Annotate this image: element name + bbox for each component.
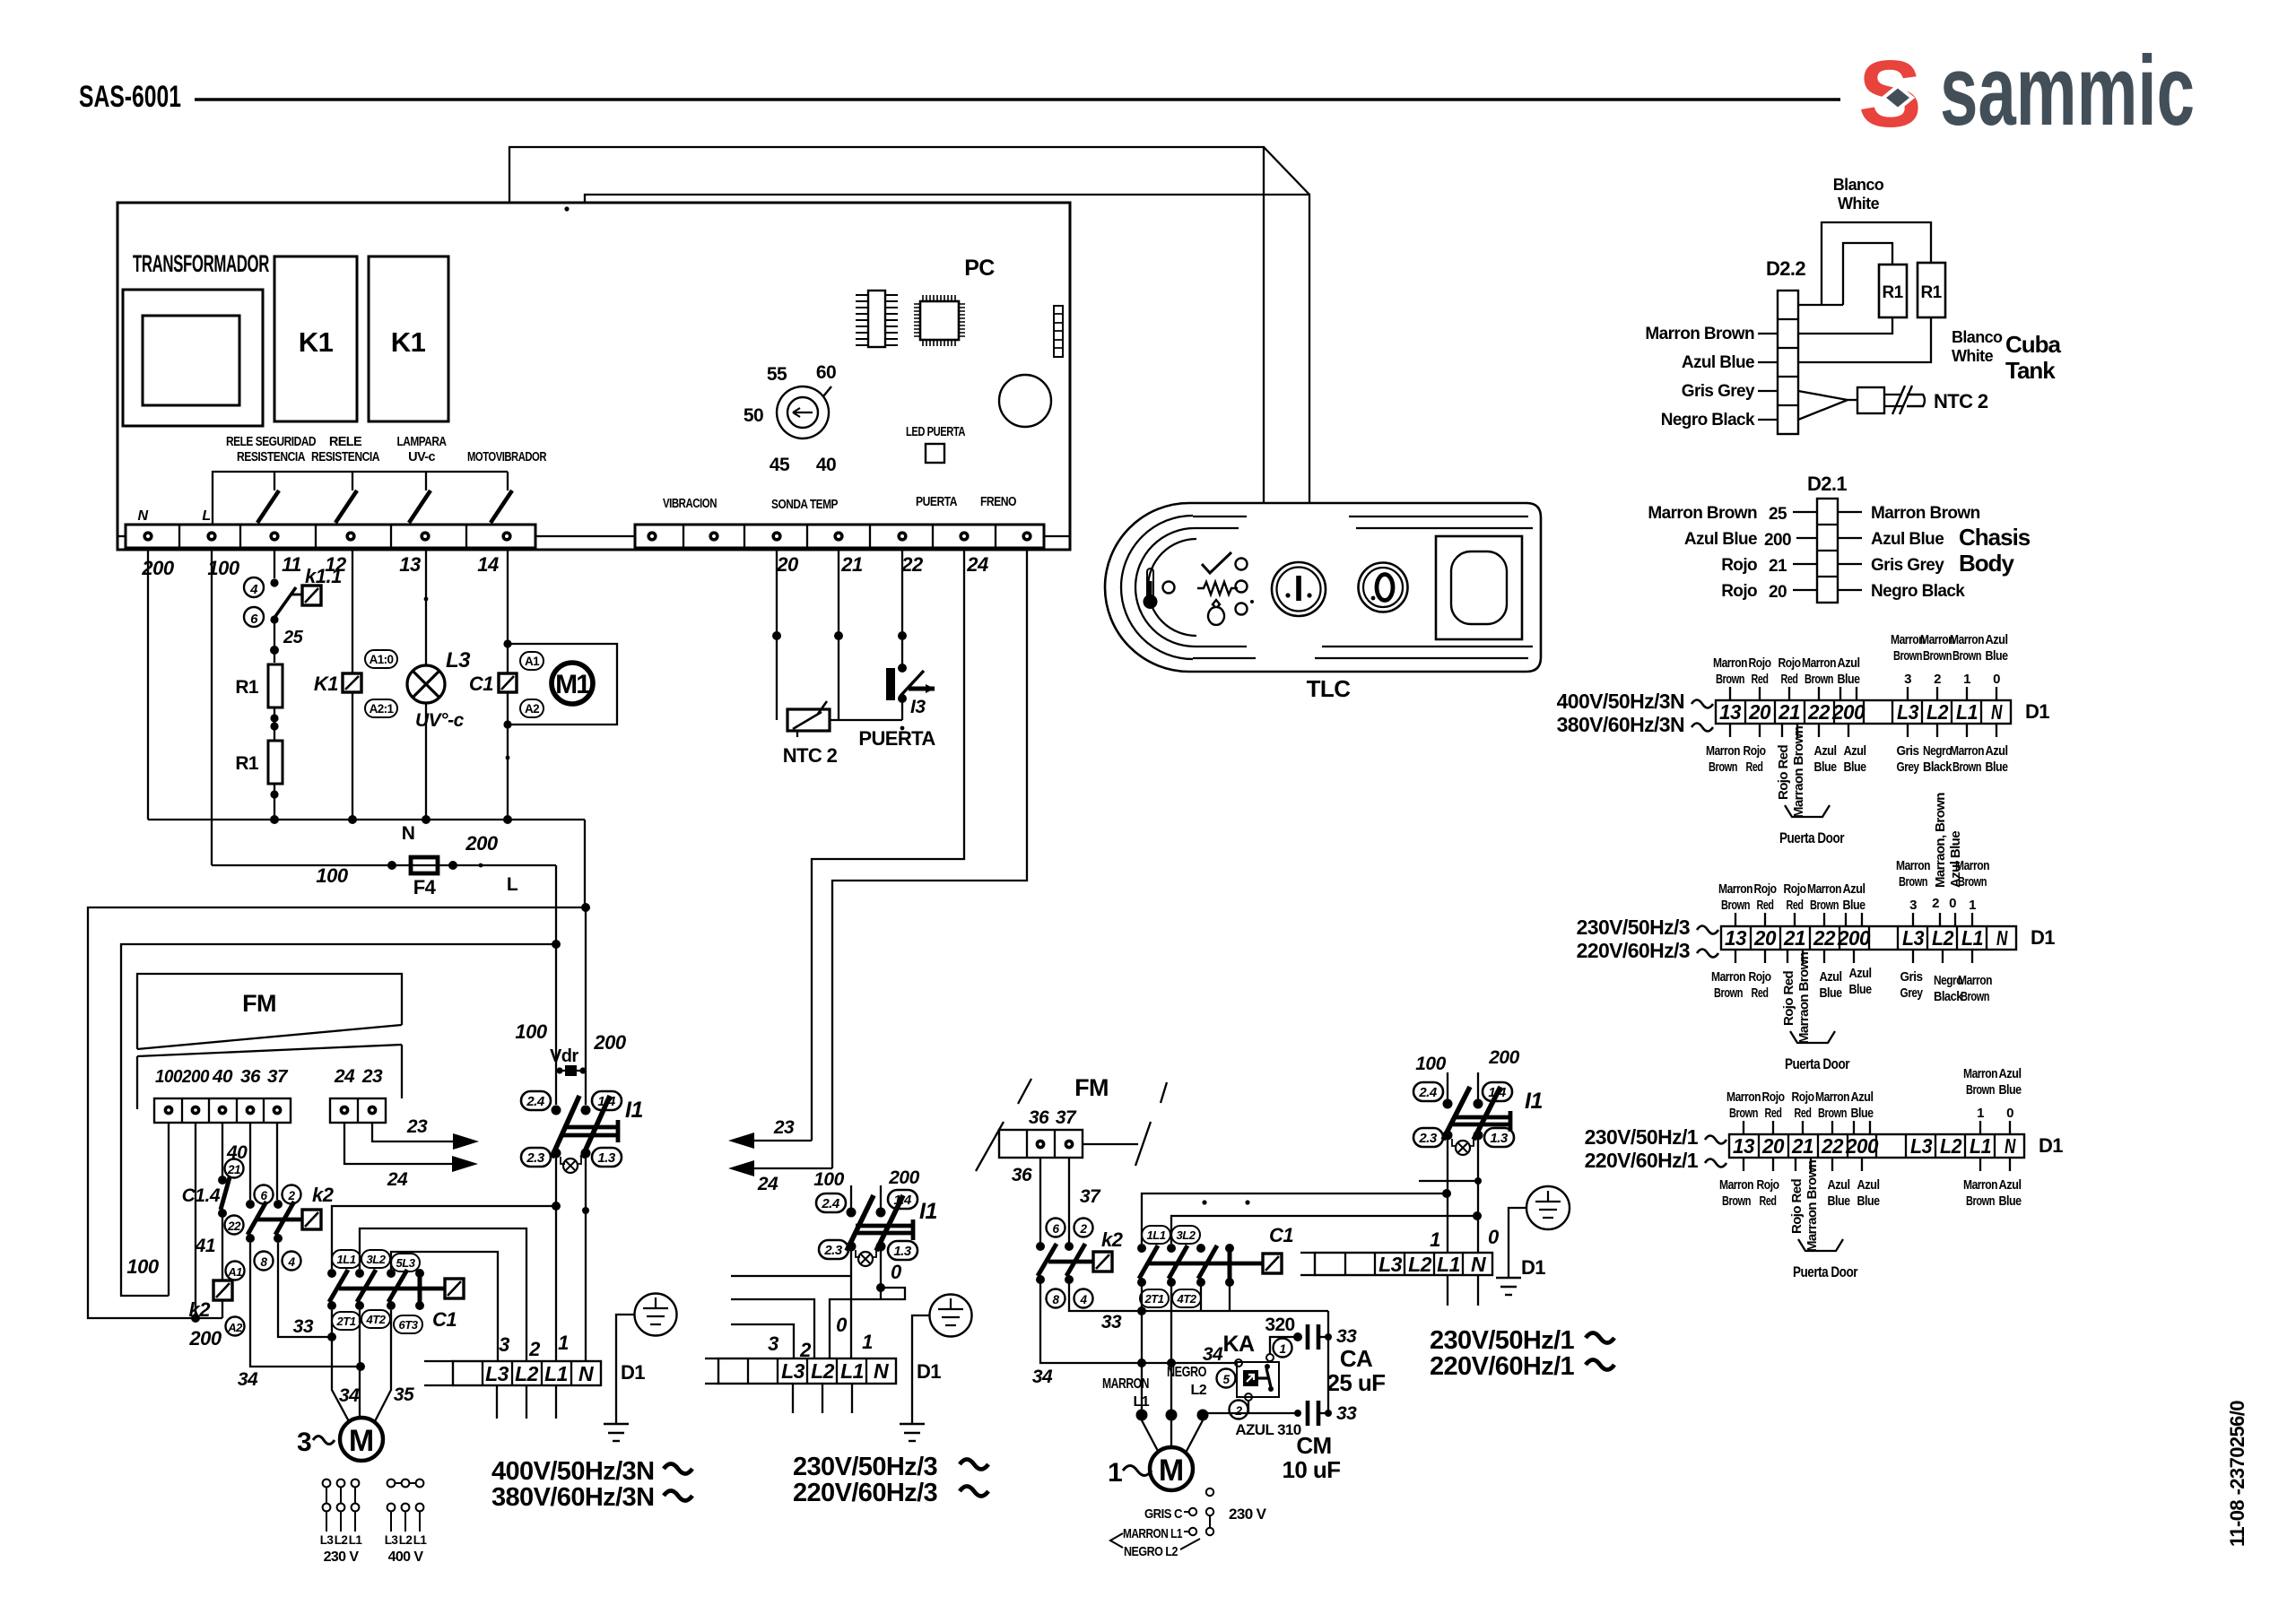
pin oval 1.4 sp xyxy=(1483,1082,1512,1101)
svg-text:Marraon Brown: Marraon Brown xyxy=(1796,951,1812,1044)
svg-text:RELE: RELE xyxy=(329,435,362,449)
svg-text:230V/50Hz/3: 230V/50Hz/3 xyxy=(793,1453,938,1481)
ground circle middle xyxy=(930,1295,972,1337)
top wires xyxy=(1730,687,1996,700)
svg-text:D1: D1 xyxy=(917,1360,941,1383)
svg-text:MOTOVIBRADOR: MOTOVIBRADOR xyxy=(467,450,547,464)
svg-text:Blue: Blue xyxy=(1857,1193,1880,1209)
svg-text:L3: L3 xyxy=(1902,926,1925,950)
svg-text:K1: K1 xyxy=(314,673,338,695)
svg-text:33: 33 xyxy=(1336,1326,1357,1347)
svg-text:4T2: 4T2 xyxy=(366,1313,387,1326)
svg-text:20: 20 xyxy=(1748,700,1771,724)
TLC small circle by thermometer xyxy=(1163,582,1175,594)
pin oval 3L2 sp xyxy=(1171,1226,1200,1244)
svg-text:Rojo: Rojo xyxy=(1744,743,1766,759)
svg-text:Rojo: Rojo xyxy=(1749,969,1771,985)
svg-text:White: White xyxy=(1952,347,1994,365)
svg-text:D1: D1 xyxy=(2039,1134,2063,1157)
svg-text:K1: K1 xyxy=(391,326,426,358)
svg-text:21: 21 xyxy=(1783,926,1805,950)
lamp symbol under I1 left xyxy=(561,1157,581,1173)
varistor Vdr xyxy=(556,1065,587,1076)
svg-text:TLC: TLC xyxy=(1307,675,1352,702)
coil k2 left xyxy=(213,1280,232,1300)
svg-text:TRANSFORMADOR: TRANSFORMADOR xyxy=(133,250,269,277)
contactor k2 single phase xyxy=(1036,1242,1093,1284)
lamp L3 xyxy=(407,665,445,703)
motor wires single phase xyxy=(1141,1286,1143,1415)
svg-text:Azul Blue: Azul Blue xyxy=(1684,530,1757,549)
svg-text:24: 24 xyxy=(757,1174,778,1194)
svg-text:Rojo Red: Rojo Red xyxy=(1776,745,1791,800)
ground circle right xyxy=(1526,1186,1570,1229)
TLC inner arc 3 xyxy=(1148,539,1196,636)
coil C1 single phase xyxy=(1263,1254,1282,1273)
svg-text:L3: L3 xyxy=(1910,1134,1933,1158)
svg-text:NEGRO: NEGRO xyxy=(1167,1365,1206,1380)
svg-text:Blue: Blue xyxy=(1828,1193,1850,1209)
svg-text:R1: R1 xyxy=(1882,283,1903,302)
junction 100 loop xyxy=(552,940,561,949)
arrow 24 right section xyxy=(750,1167,832,1169)
svg-text:NTC 2: NTC 2 xyxy=(1934,390,1988,412)
relay contact blade 13 xyxy=(425,472,427,490)
svg-text:L1: L1 xyxy=(1437,1253,1460,1276)
svg-text:k1.1: k1.1 xyxy=(305,565,342,587)
svg-text:F4: F4 xyxy=(413,876,437,898)
svg-text:Puerta Door: Puerta Door xyxy=(1793,1263,1858,1280)
svg-text:230V/50Hz/1: 230V/50Hz/1 xyxy=(1585,1125,1699,1149)
relay contact blade 11 xyxy=(274,472,275,490)
svg-text:A1: A1 xyxy=(227,1265,242,1279)
svg-text:A1: A1 xyxy=(525,655,540,668)
pin circle 8 xyxy=(255,1252,274,1271)
svg-text:35: 35 xyxy=(394,1384,414,1405)
svg-text:6T3: 6T3 xyxy=(399,1318,419,1332)
coil C1 left xyxy=(445,1279,464,1298)
sammic logo diamond xyxy=(1883,86,1912,109)
wire KA-2 to 310 line xyxy=(1248,1401,1249,1413)
pin circle 1 KA xyxy=(1274,1339,1292,1358)
svg-text:R1: R1 xyxy=(235,753,259,774)
svg-text:1.4: 1.4 xyxy=(597,1094,616,1109)
bottom N bus xyxy=(148,819,585,820)
svg-text:L2: L2 xyxy=(1191,1383,1207,1398)
wire 14 vertical xyxy=(507,548,509,820)
svg-text:FM: FM xyxy=(1074,1074,1109,1101)
svg-text:1: 1 xyxy=(862,1331,873,1353)
pin oval 2.4 sp xyxy=(1413,1082,1443,1101)
wire R1 to bus xyxy=(274,784,275,820)
svg-text:2T1: 2T1 xyxy=(336,1315,356,1328)
TLC tiny dot xyxy=(1250,600,1254,603)
sammic logo red S xyxy=(1858,36,2195,147)
svg-text:Rojo: Rojo xyxy=(1784,881,1806,897)
motor terminals single phase xyxy=(1136,1410,1148,1421)
svg-text:LED PUERTA: LED PUERTA xyxy=(906,425,966,439)
door switch I3 xyxy=(886,664,935,703)
puerta door bracket xyxy=(1798,1239,1843,1251)
svg-text:Blue: Blue xyxy=(1814,759,1837,775)
svg-text:M1: M1 xyxy=(555,670,590,699)
relay contact blade 12 xyxy=(352,472,353,490)
svg-text:Blue: Blue xyxy=(1843,898,1865,913)
svg-text:13: 13 xyxy=(1725,926,1747,950)
svg-text:NTC 2: NTC 2 xyxy=(783,744,838,767)
svg-text:L1: L1 xyxy=(840,1359,864,1383)
svg-text:37: 37 xyxy=(267,1067,288,1087)
svg-text:3: 3 xyxy=(1909,898,1917,913)
svg-text:200: 200 xyxy=(1837,926,1871,950)
svg-text:Azul: Azul xyxy=(1814,743,1837,759)
svg-text:k2: k2 xyxy=(189,1298,212,1321)
ground lead left xyxy=(616,1315,634,1424)
pin oval 4T2 xyxy=(361,1310,390,1328)
wire k2 coil to 200 loop xyxy=(222,1300,223,1318)
svg-text:Brown: Brown xyxy=(1714,985,1743,1001)
terminal strip D1 middle xyxy=(705,1358,896,1384)
svg-text:230 V: 230 V xyxy=(324,1549,360,1565)
svg-text:Rojo: Rojo xyxy=(1762,1089,1785,1105)
svg-text:33: 33 xyxy=(1336,1403,1357,1424)
svg-text:0: 0 xyxy=(836,1314,848,1336)
contactor k2 left contacts xyxy=(246,1200,302,1243)
svg-text:Blue: Blue xyxy=(1999,1193,2022,1209)
svg-text:22: 22 xyxy=(900,553,924,576)
svg-text:Azul: Azul xyxy=(1999,1177,2022,1193)
IC chip DIP xyxy=(856,291,898,347)
pin circle 4 xyxy=(283,1252,301,1271)
svg-text:21: 21 xyxy=(227,1163,240,1176)
svg-text:sammic: sammic xyxy=(1940,36,2195,146)
svg-text:L1: L1 xyxy=(413,1533,428,1547)
PC board outer box xyxy=(117,203,1070,550)
pin circle 2 sp xyxy=(1074,1219,1093,1237)
wire 22 to NTC line xyxy=(901,699,903,720)
svg-text:Marron: Marron xyxy=(1719,1177,1753,1193)
svg-text:C1: C1 xyxy=(469,673,493,695)
svg-text:White: White xyxy=(1838,195,1880,213)
svg-text:Negro Black: Negro Black xyxy=(1871,582,1965,601)
svg-text:1.3: 1.3 xyxy=(1490,1131,1509,1146)
connector D2.1 xyxy=(1817,499,1838,603)
svg-text:Blue: Blue xyxy=(1844,759,1866,775)
svg-text:34: 34 xyxy=(238,1369,258,1390)
svg-text:Azul: Azul xyxy=(1843,881,1865,897)
TLC inner arc 2 xyxy=(1135,528,1195,647)
svg-text:L2: L2 xyxy=(1932,926,1954,950)
wire FM 37 down xyxy=(276,1123,278,1200)
svg-text:L3: L3 xyxy=(781,1359,805,1383)
svg-text:K1: K1 xyxy=(299,326,334,358)
strip X1 terminal dots xyxy=(143,531,511,541)
transformador inner box xyxy=(143,316,239,405)
motor M three phase xyxy=(340,1418,383,1461)
svg-text:N: N xyxy=(1996,926,2008,950)
wire k2-4 to 33 line xyxy=(278,1243,332,1337)
earth symbol middle xyxy=(900,1424,925,1441)
svg-text:CM: CM xyxy=(1296,1432,1331,1459)
svg-text:400 V: 400 V xyxy=(388,1549,424,1565)
svg-text:11: 11 xyxy=(282,553,301,576)
svg-text:21: 21 xyxy=(1769,557,1787,576)
svg-text:N: N xyxy=(1471,1253,1486,1276)
svg-text:Blue: Blue xyxy=(1820,985,1842,1001)
svg-text:L3: L3 xyxy=(320,1533,335,1547)
svg-text:I1: I1 xyxy=(625,1098,643,1123)
svg-text:200: 200 xyxy=(888,1167,919,1188)
svg-text:RELE SEGURIDAD: RELE SEGURIDAD xyxy=(226,435,316,449)
svg-text:Marron: Marron xyxy=(1711,969,1745,985)
top wires xyxy=(1735,913,1972,926)
strip X2 terminal dots xyxy=(647,531,1031,541)
pin oval 3L2 xyxy=(361,1250,390,1268)
motor terminal block 400V xyxy=(387,1480,424,1532)
svg-text:Brown: Brown xyxy=(1810,898,1839,913)
stray dots xyxy=(1202,1200,1206,1204)
svg-text:Marron: Marron xyxy=(1963,1066,1997,1081)
earth symbol left xyxy=(604,1424,629,1441)
svg-text:Azul: Azul xyxy=(1857,1177,1880,1193)
svg-text:Marron: Marron xyxy=(1706,743,1740,759)
svg-text:200: 200 xyxy=(1764,531,1791,550)
ground lead middle xyxy=(912,1315,929,1424)
svg-text:N: N xyxy=(402,823,415,844)
cable block D1 230V single phase xyxy=(1729,1134,2024,1158)
svg-text:220V/60Hz/3: 220V/60Hz/3 xyxy=(1577,939,1690,962)
svg-text:L3: L3 xyxy=(1897,700,1919,724)
TLC check mark icon xyxy=(1202,552,1231,573)
relay K1 box 1 xyxy=(274,256,357,421)
svg-text:I1: I1 xyxy=(1525,1089,1543,1114)
svg-text:Blue: Blue xyxy=(1986,648,2008,664)
earth symbol right xyxy=(1496,1278,1521,1295)
svg-text:I1: I1 xyxy=(919,1199,937,1224)
svg-text:Brown: Brown xyxy=(1952,759,1981,775)
svg-text:M: M xyxy=(1159,1454,1184,1488)
TLC bag icon xyxy=(1208,600,1224,625)
svg-text:M: M xyxy=(349,1424,374,1458)
svg-text:L1: L1 xyxy=(349,1533,363,1547)
pin oval 2.3 sp xyxy=(1413,1128,1443,1147)
svg-text:N: N xyxy=(137,508,148,524)
svg-text:13: 13 xyxy=(1719,700,1742,724)
svg-text:37: 37 xyxy=(1056,1107,1077,1128)
wire FM 36 down xyxy=(1039,1158,1041,1243)
feed 5L3 from L3 net xyxy=(391,1252,498,1361)
svg-text:L1: L1 xyxy=(544,1362,568,1385)
wire D2.2 pin1 to R1b xyxy=(1798,222,1931,305)
potentiometer dial xyxy=(777,386,831,438)
lamp symbol under I1 middle xyxy=(856,1250,876,1266)
svg-text:Azul: Azul xyxy=(1849,966,1872,981)
svg-text:L3: L3 xyxy=(446,648,471,673)
svg-text:L1: L1 xyxy=(1961,926,1983,950)
svg-text:4: 4 xyxy=(249,582,258,597)
lamp symbol under I1 sp xyxy=(1452,1139,1474,1155)
svg-text:Vdr: Vdr xyxy=(550,1046,578,1066)
wire 33 single phase xyxy=(1069,1283,1328,1311)
cable block D1 400V xyxy=(1716,700,2011,724)
svg-text:Gris: Gris xyxy=(1897,743,1919,759)
svg-text:Chasis: Chasis xyxy=(1959,524,2031,551)
wire FM 200 down xyxy=(195,1123,196,1318)
svg-text:2.4: 2.4 xyxy=(526,1094,545,1109)
terminal strip X2 xyxy=(635,525,1044,548)
coil k2 left contact coil xyxy=(302,1210,321,1229)
svg-text:L1: L1 xyxy=(1970,1134,1991,1158)
pin oval 1.3 xyxy=(592,1148,622,1167)
pin oval 6T3 xyxy=(394,1315,422,1333)
svg-text:3: 3 xyxy=(1904,672,1911,687)
svg-text:40: 40 xyxy=(212,1067,232,1087)
svg-text:Black: Black xyxy=(1923,759,1952,775)
svg-text:6: 6 xyxy=(260,1189,267,1202)
svg-text:1.3: 1.3 xyxy=(597,1150,616,1166)
svg-text:L3: L3 xyxy=(485,1362,509,1385)
wire NTC to PUERTA xyxy=(830,719,902,721)
svg-text:20: 20 xyxy=(1769,583,1787,602)
svg-text:GRIS C: GRIS C xyxy=(1144,1506,1183,1522)
ground circle left xyxy=(635,1294,677,1336)
resistor R1 upper xyxy=(268,664,283,707)
svg-text:34: 34 xyxy=(1032,1367,1053,1387)
svg-text:100: 100 xyxy=(316,864,348,887)
svg-text:KA: KA xyxy=(1223,1332,1255,1357)
svg-text:Negro: Negro xyxy=(1923,743,1952,759)
pin circle 21 xyxy=(225,1159,244,1178)
wire I1 2.3 down to D1 L1 xyxy=(555,1158,557,1361)
TLC button I xyxy=(1272,562,1326,616)
svg-text:36: 36 xyxy=(240,1067,261,1087)
svg-text:41: 41 xyxy=(195,1236,215,1256)
svg-text:4T2: 4T2 xyxy=(1177,1292,1197,1306)
relay K1 box 2 xyxy=(369,256,448,421)
pin circle 2 KA xyxy=(1230,1401,1248,1419)
TLC button 0 xyxy=(1359,563,1408,612)
pin label A1:0 xyxy=(365,650,397,668)
wire R1b to pin3 xyxy=(1798,317,1931,362)
svg-text:Marron: Marron xyxy=(1726,1089,1761,1105)
svg-text:13: 13 xyxy=(399,553,421,576)
pin circle 2 xyxy=(283,1185,301,1204)
svg-text:Red: Red xyxy=(1752,672,1769,687)
terminal strip D1 right xyxy=(1300,1253,1492,1276)
svg-text:D1: D1 xyxy=(2025,700,2049,723)
contact k1.1 terminal 6 xyxy=(244,607,264,627)
svg-text:Blue: Blue xyxy=(1849,982,1872,997)
svg-text:Red: Red xyxy=(1795,1106,1812,1121)
TLC resistor icon xyxy=(1197,582,1238,595)
transformador outer box xyxy=(123,290,263,426)
svg-text:D1: D1 xyxy=(1521,1256,1545,1279)
motor wire 4T2 xyxy=(359,1310,361,1418)
svg-text:C1: C1 xyxy=(1269,1224,1293,1246)
svg-text:Marron: Marron xyxy=(1718,881,1752,897)
title rule xyxy=(195,98,1840,101)
stub net 1 middle xyxy=(731,1275,851,1277)
junction dots on wire 14 xyxy=(503,639,511,647)
svg-text:Azul Blue: Azul Blue xyxy=(1682,353,1754,372)
contact k1.1 terminal 4 xyxy=(244,577,264,597)
wire AZUL 310 xyxy=(1203,1412,1298,1414)
svg-text:25 uF: 25 uF xyxy=(1327,1369,1386,1396)
LED PUERTA square xyxy=(926,444,944,463)
pin label A2:1 xyxy=(365,699,397,717)
svg-text:230V/50Hz/3: 230V/50Hz/3 xyxy=(1577,916,1690,939)
wire 25 xyxy=(274,620,275,663)
svg-text:NEGRO L2: NEGRO L2 xyxy=(1124,1544,1178,1559)
svg-text:220V/60Hz/1: 220V/60Hz/1 xyxy=(1585,1149,1699,1172)
svg-text:320: 320 xyxy=(1265,1315,1294,1335)
feed 3L2 from L2 net xyxy=(360,1228,526,1361)
svg-text:Azul: Azul xyxy=(1986,632,2008,647)
wire I1 1.3 down to D1 N xyxy=(585,1158,587,1361)
svg-text:MARRON L1: MARRON L1 xyxy=(1123,1526,1182,1541)
svg-text:Body: Body xyxy=(1959,550,2015,577)
svg-text:100: 100 xyxy=(155,1067,182,1087)
wire strip X1 to strip X2 xyxy=(535,535,635,537)
svg-text:LAMPARA: LAMPARA xyxy=(397,435,448,449)
svg-text:Marron Brown: Marron Brown xyxy=(1871,504,1980,523)
relay KA xyxy=(1235,1354,1279,1401)
svg-text:Brown: Brown xyxy=(1899,874,1927,890)
svg-text:L2: L2 xyxy=(399,1533,413,1547)
svg-text:Brown: Brown xyxy=(1722,1193,1751,1209)
wire between resistors xyxy=(274,707,275,741)
svg-text:Marron Brown: Marron Brown xyxy=(1645,325,1754,343)
svg-text:Puerta Door: Puerta Door xyxy=(1785,1055,1850,1072)
svg-text:Marron: Marron xyxy=(1958,973,1992,988)
svg-text:k2: k2 xyxy=(312,1184,335,1206)
svg-text:34: 34 xyxy=(1203,1344,1223,1365)
pin circle A2 xyxy=(226,1317,245,1336)
svg-text:55: 55 xyxy=(767,364,787,385)
svg-text:SAS-6001: SAS-6001 xyxy=(79,80,181,114)
svg-text:200: 200 xyxy=(181,1067,209,1087)
svg-text:Azul: Azul xyxy=(1844,743,1866,759)
TLC inner arc 1 xyxy=(1121,516,1193,659)
svg-text:6: 6 xyxy=(1052,1222,1059,1236)
svg-text:10 uF: 10 uF xyxy=(1283,1456,1341,1483)
motor wire 6T3 xyxy=(374,1310,391,1423)
svg-text:1L1: 1L1 xyxy=(1147,1228,1166,1242)
svg-text:Cuba: Cuba xyxy=(2005,331,2062,358)
wire FM right stub xyxy=(1083,1143,1138,1145)
junction 200 loop xyxy=(581,903,590,912)
motor wire 2T1 xyxy=(332,1310,350,1423)
svg-text:33: 33 xyxy=(293,1316,314,1337)
pin oval 2.3 middle xyxy=(819,1240,848,1259)
svg-text:1: 1 xyxy=(558,1332,569,1354)
svg-text:8: 8 xyxy=(1052,1293,1059,1306)
wire 12 vertical xyxy=(352,548,353,673)
wire FM 37 down xyxy=(1068,1158,1070,1243)
svg-text:UV-c: UV-c xyxy=(408,450,435,464)
svg-text:Puerta Door: Puerta Door xyxy=(1779,829,1845,846)
svg-text:Azul: Azul xyxy=(1999,1066,2022,1081)
svg-text:N: N xyxy=(874,1359,889,1383)
svg-text:FRENO: FRENO xyxy=(980,495,1016,509)
wire FM 100 down xyxy=(168,1123,170,1296)
svg-text:AZUL 310: AZUL 310 xyxy=(1235,1421,1300,1438)
svg-text:Azul: Azul xyxy=(1820,969,1842,985)
svg-text:Marron: Marron xyxy=(1955,858,1989,873)
svg-text:L2: L2 xyxy=(1408,1253,1432,1276)
svg-text:A2: A2 xyxy=(525,702,539,716)
svg-text:2: 2 xyxy=(287,1189,295,1202)
